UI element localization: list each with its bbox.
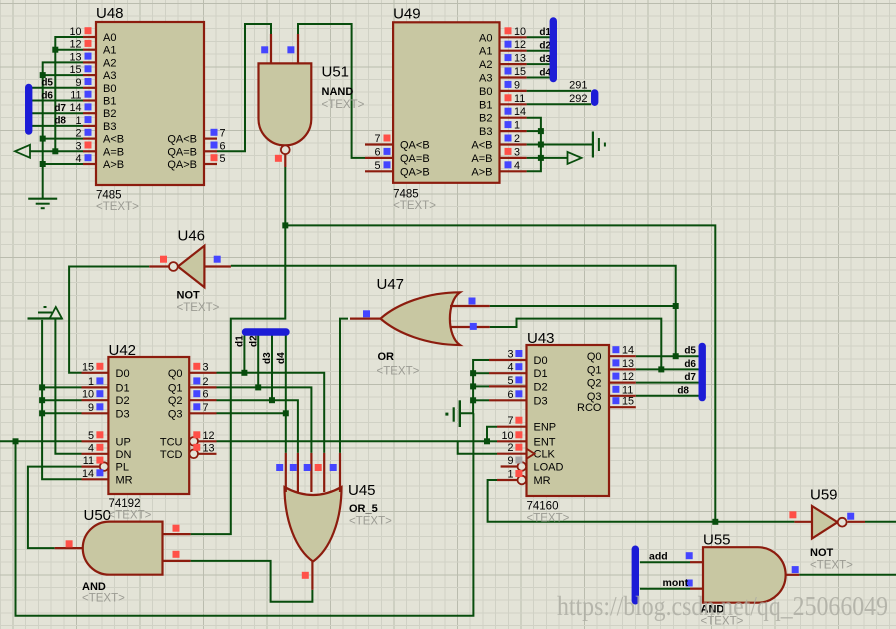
- svg-text:UP: UP: [116, 436, 131, 448]
- wire U45 output to U50 input B: [191, 561, 313, 602]
- svg-text:2: 2: [514, 133, 520, 145]
- svg-text:9: 9: [514, 79, 520, 91]
- svg-text:<TEXT>: <TEXT>: [96, 201, 139, 213]
- svg-text:<TEXT>: <TEXT>: [82, 593, 125, 605]
- svg-text:D0: D0: [116, 368, 130, 380]
- U43 right pins: [609, 355, 636, 357]
- wire U43.D2 link: [473, 385, 489, 387]
- svg-text:U45: U45: [348, 482, 376, 499]
- U42 left pins: [82, 372, 109, 374]
- svg-text:AND: AND: [82, 581, 106, 593]
- svg-text:QA>B: QA>B: [167, 159, 197, 171]
- wire U43.Q3 to bus d8: [636, 395, 699, 397]
- svg-text:https://blog.csdn.net/qq_25066: https://blog.csdn.net/qq_25066049: [557, 591, 888, 621]
- terminal arrow (up) at U42.DN rail: [50, 307, 62, 319]
- svg-text:d2: d2: [248, 335, 259, 347]
- wire U42.D3 link: [42, 412, 81, 414]
- svg-text:MR: MR: [534, 475, 551, 487]
- junction dot NAND output: [282, 222, 288, 228]
- svg-text:LOAD: LOAD: [534, 462, 564, 474]
- input terminal arrow at U48.A=B: [15, 145, 30, 158]
- svg-text:PL: PL: [116, 462, 129, 474]
- svg-text:d8: d8: [677, 385, 689, 396]
- wire U49.B1 net 292: [527, 103, 592, 105]
- U43 CLK edge triangle: [527, 449, 535, 459]
- wire U42.UP row (to left edge): [0, 440, 82, 442]
- wire U48.A=B to input terminal: [30, 150, 83, 152]
- svg-text:9: 9: [88, 402, 94, 414]
- svg-text:9: 9: [75, 77, 81, 89]
- svg-text:3: 3: [514, 146, 520, 158]
- U51 output bubble and stub: [281, 145, 290, 154]
- wire U42.Q2 to U45 input 2: [217, 400, 298, 453]
- wire U48.A<B link: [43, 138, 83, 140]
- wire U49.A0 to bus d1: [527, 36, 550, 38]
- wire U55 output to right edge: [799, 574, 896, 576]
- wire U47 output to U45 input 5: [340, 319, 348, 453]
- svg-text:A3: A3: [479, 73, 492, 85]
- wire U47 input B from U43.Q1: [490, 319, 662, 370]
- svg-text:A2: A2: [479, 59, 492, 71]
- wire U49.B2-A>B ground group: [527, 118, 541, 172]
- AND gate U55: [703, 547, 786, 603]
- wire U43.Q2 to bus d7: [636, 382, 699, 384]
- svg-text:A>B: A>B: [103, 159, 124, 171]
- NOT gate U59: [812, 506, 838, 539]
- wire U43.D3 link: [473, 399, 489, 401]
- svg-text:14: 14: [622, 345, 634, 357]
- svg-text:d7: d7: [54, 103, 66, 114]
- probe squares U50: [66, 540, 73, 547]
- wire U59 output to right edge: [865, 521, 896, 523]
- svg-text:OR: OR: [378, 351, 395, 363]
- svg-text:QA<B: QA<B: [167, 134, 197, 146]
- U45 output stub: [311, 562, 313, 590]
- wire battery to U43.D0-D3: [461, 360, 489, 413]
- U45 input stubs (red): [285, 453, 287, 492]
- svg-text:1: 1: [75, 115, 81, 127]
- bus bar d1-d4 at U49: [550, 21, 557, 79]
- wire U55 input add: [640, 561, 690, 563]
- svg-text:TCD: TCD: [160, 449, 183, 461]
- U51 input pin stubs: [270, 34, 272, 64]
- junction dots U43 data inputs: [470, 370, 476, 376]
- junction dot UP rail: [13, 438, 19, 444]
- svg-text:6: 6: [507, 389, 513, 401]
- svg-text:<TEXT>: <TEXT>: [527, 513, 570, 525]
- svg-text:B3: B3: [479, 126, 492, 138]
- wire terminal arrow to U42.DN: [55, 319, 81, 454]
- svg-text:2: 2: [75, 128, 81, 140]
- svg-text:5: 5: [374, 160, 380, 172]
- svg-text:<TEXT>: <TEXT>: [377, 366, 420, 378]
- U47 input stubs: [450, 305, 490, 307]
- wire U43.Q1 to bus d6: [636, 368, 699, 370]
- svg-text:11: 11: [83, 455, 94, 467]
- wire U42.Q3 to d4 tap: [217, 412, 286, 414]
- U55 input stubs: [690, 561, 703, 563]
- bus tap d2 to U42.Q1: [257, 336, 259, 388]
- svg-text:10: 10: [82, 389, 94, 401]
- svg-text:10: 10: [69, 26, 81, 38]
- bus bar d5-d8 at U43: [699, 346, 706, 397]
- svg-text:TCU: TCU: [160, 436, 183, 448]
- svg-text:A=B: A=B: [471, 153, 492, 165]
- U48 right pins QA<B/QA=B/QA>B: [204, 138, 217, 140]
- svg-text:U55: U55: [703, 532, 731, 549]
- wire U43.MR to U59 input (long rail y=522): [488, 480, 795, 522]
- junction dot ENT: [484, 438, 490, 444]
- wire ENT green stub: [487, 440, 497, 442]
- svg-text:U43: U43: [527, 330, 555, 347]
- junction dots U42 data inputs: [39, 384, 45, 390]
- svg-text:Q0: Q0: [587, 351, 602, 363]
- svg-text:1: 1: [88, 376, 94, 388]
- svg-text:Q0: Q0: [168, 368, 183, 380]
- svg-text:ENP: ENP: [534, 422, 557, 434]
- wire power rail left/bottom (UP to battery): [16, 413, 474, 616]
- svg-text:14: 14: [514, 106, 526, 118]
- svg-text:4: 4: [507, 362, 513, 374]
- svg-text:7: 7: [374, 133, 380, 145]
- svg-text:11: 11: [514, 93, 525, 105]
- svg-text:Q3: Q3: [168, 408, 183, 420]
- svg-text:A<B: A<B: [471, 140, 492, 152]
- svg-text:NOT: NOT: [177, 290, 201, 302]
- svg-text:Q2: Q2: [587, 378, 602, 390]
- svg-text:QA>B: QA>B: [400, 166, 430, 178]
- U43 left pins: [489, 359, 527, 361]
- junction dots d1-d4 taps: [241, 370, 247, 376]
- svg-text:D1: D1: [534, 368, 548, 380]
- probe squares U45: [276, 464, 283, 471]
- svg-text:d5: d5: [41, 78, 53, 89]
- wire U48.A0-A1 left bus (net to A0/A1): [55, 37, 83, 151]
- svg-text:10: 10: [501, 430, 513, 442]
- OR gate U47 (mirrored): [381, 292, 461, 345]
- NAND gate U51: [259, 63, 312, 145]
- probe squares U55: [686, 552, 693, 559]
- svg-text:7: 7: [203, 402, 209, 414]
- IC U49 (7485 comparator): [393, 22, 499, 183]
- svg-text:292: 292: [569, 93, 587, 105]
- OR_5 gate U45 (5-input, points down): [285, 487, 342, 562]
- svg-text:1: 1: [514, 120, 520, 132]
- svg-text:U42: U42: [109, 342, 137, 359]
- ground below U48: [28, 198, 57, 200]
- U42 right pins: [189, 372, 216, 374]
- U59 bubble and stubs: [838, 518, 847, 527]
- svg-text:4: 4: [514, 160, 520, 172]
- wire U42.Q0 to U45 input 4: [217, 373, 325, 453]
- svg-text:<TEXT>: <TEXT>: [393, 200, 436, 212]
- svg-text:RCO: RCO: [577, 402, 602, 414]
- svg-text:NAND: NAND: [322, 86, 354, 98]
- U47 output stub: [350, 318, 381, 320]
- svg-text:U47: U47: [377, 276, 405, 293]
- svg-text:<TEXT>: <TEXT>: [177, 302, 220, 314]
- svg-text:<TEXT>: <TEXT>: [810, 560, 853, 572]
- svg-text:A>B: A>B: [471, 166, 492, 178]
- wire U49.A1 to bus d2: [527, 50, 550, 52]
- svg-text:10: 10: [514, 26, 526, 38]
- bus bar add/mont: [632, 549, 639, 601]
- svg-text:291: 291: [569, 79, 587, 91]
- svg-text:QA=B: QA=B: [167, 146, 197, 158]
- svg-text:13: 13: [69, 51, 81, 63]
- svg-text:Q1: Q1: [587, 364, 602, 376]
- wire U43.D1 link: [473, 372, 489, 374]
- U48 left pins with numbers: [83, 36, 96, 38]
- svg-text:B1: B1: [479, 99, 492, 111]
- svg-text:A0: A0: [479, 32, 492, 44]
- svg-text:6: 6: [374, 146, 380, 158]
- svg-text:A0: A0: [103, 32, 116, 44]
- U55 output stub: [785, 574, 799, 576]
- junction dot U47 input A: [673, 303, 679, 309]
- svg-text:74160: 74160: [527, 501, 559, 513]
- wire U55 input mont: [640, 588, 690, 590]
- svg-text:15: 15: [69, 64, 81, 76]
- wire U42.D1 to ground rail: [42, 386, 81, 388]
- U50 input stubs: [163, 533, 191, 535]
- svg-text:5: 5: [220, 153, 226, 165]
- svg-text:U59: U59: [810, 487, 838, 504]
- svg-text:d8: d8: [54, 116, 66, 127]
- svg-text:d4: d4: [276, 352, 287, 364]
- svg-text:11: 11: [70, 90, 81, 102]
- output terminal arrow at U49.A=B: [568, 152, 582, 164]
- svg-text:1: 1: [507, 469, 513, 481]
- svg-text:13: 13: [514, 53, 526, 65]
- bus tap d4 to U42.Q3 and U45 input 1: [285, 336, 287, 453]
- svg-text:Q2: Q2: [168, 395, 183, 407]
- svg-text:<TEXT>: <TEXT>: [109, 509, 152, 521]
- svg-text:d5: d5: [684, 346, 696, 357]
- svg-text:Q1: Q1: [168, 382, 183, 394]
- wire U42.D2 link: [42, 399, 81, 401]
- probe squares U51: [261, 46, 268, 53]
- wire U48.A2-A3 to ground rail: [43, 62, 83, 198]
- wire ground rail to U42.MR: [42, 320, 81, 479]
- svg-text:4: 4: [75, 153, 81, 165]
- AND gate U50 (mirrored): [83, 522, 163, 575]
- svg-text:D2: D2: [534, 381, 548, 393]
- svg-text:D3: D3: [116, 408, 130, 420]
- bus tap d3 to U42.Q2: [271, 336, 273, 401]
- svg-text:9: 9: [507, 455, 513, 467]
- svg-text:D3: D3: [534, 395, 548, 407]
- svg-text:A3: A3: [103, 70, 116, 82]
- svg-text:d3: d3: [262, 352, 273, 364]
- svg-text:QA=B: QA=B: [400, 153, 430, 165]
- wire branch TCU line down to U43.CLK: [458, 441, 497, 453]
- svg-text:B3: B3: [103, 121, 116, 133]
- U50 output stub: [55, 547, 83, 549]
- wire U48.A>B link: [43, 163, 83, 165]
- svg-text:MR: MR: [116, 474, 133, 486]
- probe squares U59: [789, 511, 796, 518]
- svg-text:B2: B2: [479, 113, 492, 125]
- svg-text:U49: U49: [393, 6, 421, 23]
- svg-text:5: 5: [88, 430, 94, 442]
- wire U42.TCU to U43.ENT/CLK: [217, 440, 488, 442]
- wire U49.B3 link: [527, 130, 541, 132]
- ground (rotated) at U49 right: [592, 132, 594, 158]
- wire U47 input A stub link: [490, 305, 676, 307]
- wire U46 input line (net Q0) to U47 input A junction: [231, 266, 676, 356]
- svg-text:14: 14: [69, 102, 81, 114]
- junction dot U43.Q0: [673, 353, 679, 359]
- wire U48.A3 link: [43, 74, 83, 76]
- bus bar d1-d4 horizontal above U42 outputs: [246, 328, 287, 335]
- wire U49.A=B to output terminal arrow: [527, 157, 568, 159]
- svg-text:mont: mont: [663, 577, 689, 589]
- wire U49.A3 to bus d4: [527, 77, 550, 79]
- IC U48 (7485 comparator): [96, 22, 204, 185]
- ground symbol (inverted) top of U42 rails: [28, 317, 63, 319]
- wire U43.ENP jog to ENT line: [487, 427, 497, 442]
- bus bar 291/292: [591, 93, 598, 102]
- svg-text:B2: B2: [103, 108, 116, 120]
- svg-text:15: 15: [514, 66, 526, 78]
- probe squares U47: [363, 310, 370, 317]
- svg-text:11: 11: [622, 384, 633, 396]
- svg-text:15: 15: [622, 396, 634, 408]
- NOT gate U46: [178, 246, 205, 288]
- svg-text:3: 3: [507, 349, 513, 361]
- svg-text:d6: d6: [41, 90, 53, 101]
- svg-text:4: 4: [88, 442, 94, 454]
- svg-text:D2: D2: [116, 395, 130, 407]
- U46 bubble and stubs: [169, 262, 178, 271]
- svg-text:B1: B1: [103, 96, 116, 108]
- svg-text:6: 6: [220, 140, 226, 152]
- wire NAND output branch down to U50 input A: [191, 225, 286, 534]
- svg-text:A=B: A=B: [103, 146, 124, 158]
- svg-text:QA<B: QA<B: [400, 140, 430, 152]
- svg-text:7485: 7485: [393, 188, 419, 200]
- svg-text:13: 13: [203, 442, 215, 454]
- wire U49.A<B to ground symbol: [527, 144, 593, 146]
- wire U49.B0 net 291: [527, 90, 592, 92]
- U49 right pins (A/B inputs): [500, 36, 527, 38]
- svg-text:3: 3: [203, 361, 209, 373]
- wire U42.Q1 to U45 input 3: [217, 387, 312, 453]
- svg-text:12: 12: [514, 39, 526, 51]
- wire U48.QA=B to NAND U51 input A: [217, 24, 271, 151]
- bus tap d1 to U42.Q0: [243, 336, 245, 373]
- bus bar at U48 B inputs: [25, 88, 32, 132]
- svg-text:12: 12: [203, 430, 215, 442]
- svg-text:13: 13: [622, 358, 634, 370]
- svg-text:NOT: NOT: [810, 547, 834, 559]
- svg-text:2: 2: [507, 442, 513, 454]
- wire U43.Q0 to bus d5: [636, 355, 699, 357]
- svg-text:74192: 74192: [109, 498, 141, 510]
- svg-text:U48: U48: [96, 5, 124, 22]
- svg-text:7: 7: [507, 415, 513, 427]
- wire U49.QA=B to NAND U51 input B: [298, 24, 365, 158]
- wire NAND U51 output to net (horizontal rail y=225): [285, 167, 715, 522]
- wire U48.B0 (net d5): [29, 88, 83, 126]
- svg-text:U50: U50: [84, 507, 112, 524]
- svg-text:A2: A2: [103, 57, 116, 69]
- wire U48.A1 stub link: [55, 49, 83, 51]
- svg-text:add: add: [649, 550, 668, 562]
- svg-text:DN: DN: [116, 449, 132, 461]
- svg-text:OR_5: OR_5: [349, 503, 378, 515]
- svg-text:A1: A1: [103, 45, 116, 57]
- svg-text:<TEXT>: <TEXT>: [349, 516, 392, 528]
- svg-text:D1: D1: [116, 382, 130, 394]
- svg-text:d7: d7: [684, 372, 696, 383]
- junction dots U49 right group: [538, 128, 544, 134]
- svg-text:U51: U51: [322, 64, 350, 81]
- wire U48.B2 (net d7): [29, 112, 83, 114]
- svg-text:D0: D0: [534, 355, 548, 367]
- svg-text:3: 3: [75, 140, 81, 152]
- svg-text:B0: B0: [479, 86, 492, 98]
- IC U43 (74160 counter): [527, 345, 610, 496]
- svg-text:6: 6: [203, 389, 209, 401]
- wire U48.B3 (net d8): [29, 125, 83, 127]
- svg-text:d6: d6: [684, 359, 696, 370]
- svg-text:A<B: A<B: [103, 134, 124, 146]
- IC U42 (74192 up/down counter): [108, 357, 189, 494]
- svg-text:d1: d1: [235, 335, 246, 347]
- wire U50 output to U42.PL: [28, 467, 82, 548]
- svg-text:<TEXT>: <TEXT>: [322, 99, 365, 111]
- wire U49.A2 to bus d3: [527, 63, 550, 65]
- svg-text:B0: B0: [103, 83, 116, 95]
- junction dot NAND rail to U59 line: [712, 519, 718, 525]
- wire U46 output to U42.D0: [69, 267, 149, 373]
- svg-text:U46: U46: [178, 228, 206, 245]
- svg-text:7485: 7485: [96, 190, 122, 202]
- svg-text:CLK: CLK: [534, 449, 556, 461]
- svg-text:A1: A1: [479, 46, 492, 58]
- svg-text:12: 12: [622, 371, 634, 383]
- svg-text:14: 14: [82, 468, 94, 480]
- junction dots U48 left: [52, 47, 58, 53]
- U49 left pins QA<B/QA=B/QA>B: [365, 143, 393, 145]
- svg-text:2: 2: [203, 376, 209, 388]
- svg-text:7: 7: [220, 128, 226, 140]
- junction dot U43.Q1: [658, 366, 664, 372]
- svg-text:15: 15: [82, 361, 94, 373]
- svg-text:ENT: ENT: [534, 436, 556, 448]
- probe squares U46: [160, 256, 167, 263]
- battery cell symbol at U43 data inputs: [459, 400, 461, 427]
- wire U48.B1 (net d6): [29, 100, 83, 102]
- svg-text:12: 12: [69, 39, 81, 51]
- svg-text:5: 5: [507, 375, 513, 387]
- svg-text:Q3: Q3: [587, 391, 602, 403]
